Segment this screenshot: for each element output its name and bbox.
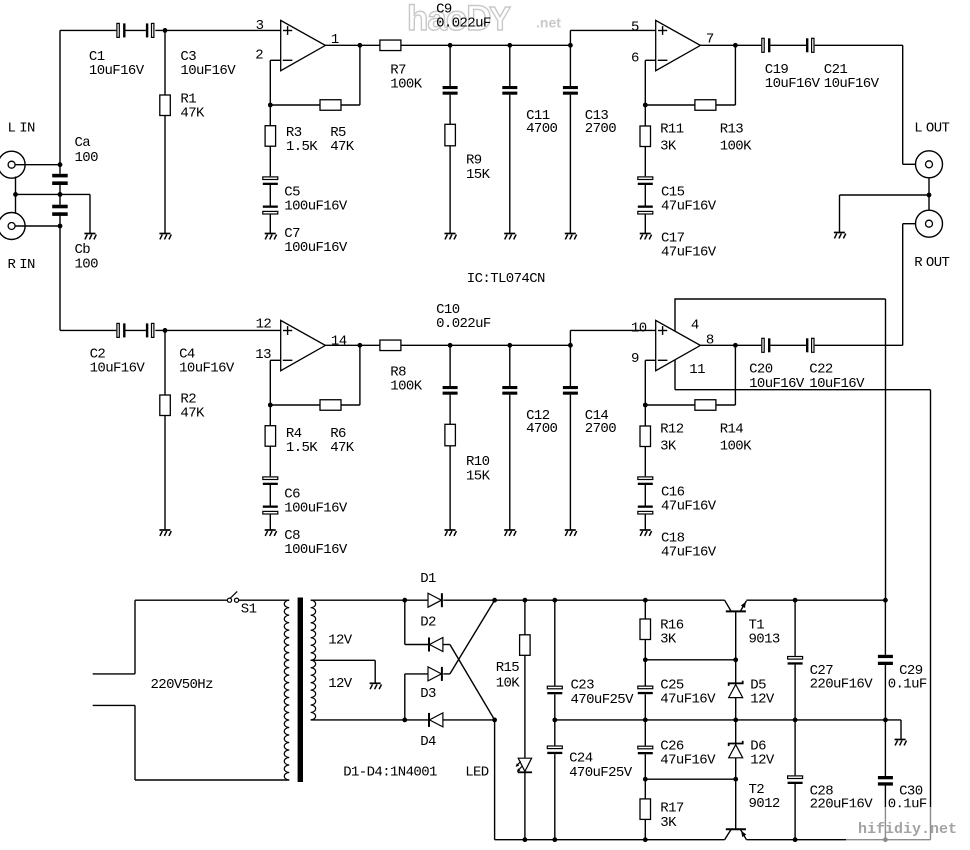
transistor T1 9013 (725, 600, 780, 648)
node feedback B (643, 103, 648, 108)
capacitor C8 100uF16V (263, 506, 348, 559)
capacitor C9 0.022uF (436, 2, 491, 95)
svg-text:15K: 15K (466, 469, 491, 485)
wire (405, 673, 428, 675)
wire (644, 720, 646, 746)
node feedback B (643, 403, 648, 408)
wire (341, 404, 360, 406)
wire (164, 330, 166, 395)
zener diode D5 12V (729, 678, 775, 708)
wire (164, 416, 166, 531)
op-amp U1C TL074 (281, 320, 326, 370)
junction (448, 343, 453, 348)
wire (449, 45, 451, 86)
ground (445, 530, 457, 536)
wire (735, 698, 737, 720)
junction (507, 43, 512, 48)
wire (644, 60, 646, 105)
wire (449, 345, 451, 386)
output jack R OUT (916, 210, 943, 237)
input jack R IN (0, 213, 35, 274)
wire (269, 360, 271, 405)
svg-text:100uF16V: 100uF16V (284, 501, 348, 517)
svg-text:D3: D3 (420, 686, 436, 702)
svg-text:10uF16V: 10uF16V (765, 76, 821, 92)
svg-text:1.5K: 1.5K (286, 440, 318, 456)
junction (883, 837, 888, 842)
junction (448, 43, 453, 48)
diode D4 1N4001 (420, 713, 443, 750)
svg-text:Y: Y (489, 0, 511, 37)
svg-text:L: L (914, 120, 922, 136)
wire (644, 105, 646, 126)
wire (269, 146, 271, 176)
junction (13, 192, 18, 197)
svg-text:100: 100 (75, 257, 99, 273)
wire output (325, 44, 380, 46)
wire (644, 447, 646, 477)
wire (735, 660, 737, 684)
wire (644, 405, 646, 426)
resistor R8 100K (380, 340, 423, 395)
svg-text:.net: .net (536, 15, 561, 31)
wire top rail (495, 599, 725, 601)
junction (568, 343, 573, 348)
wire jack shells (15, 177, 17, 213)
junction (733, 43, 738, 48)
diode D3 1N4001 (420, 667, 442, 702)
wire (269, 446, 271, 476)
ground (504, 234, 516, 240)
wire ground stub (89, 194, 91, 233)
capacitor C24 470uF25V (547, 746, 632, 781)
wire (443, 644, 450, 646)
capacitor C4 10uF16V (146, 323, 235, 376)
wire (900, 720, 902, 740)
svg-text:10uF16V: 10uF16V (809, 376, 865, 392)
ground (895, 740, 907, 746)
resistor R11 3K (640, 122, 684, 155)
svg-text:R14: R14 (720, 422, 744, 438)
wire (524, 655, 526, 758)
wire (449, 146, 451, 234)
wire (645, 778, 735, 780)
wire bottom rail (495, 839, 725, 841)
wire V- rail to supply (930, 390, 932, 840)
svg-text:47uF16V: 47uF16V (661, 499, 717, 515)
svg-text:12V: 12V (750, 753, 775, 769)
capacitor C25 47uF16V (638, 678, 716, 708)
junction (883, 718, 888, 723)
watermark haoDIY.net (407, 0, 561, 38)
ground (445, 234, 457, 240)
capacitor C21 10uF16V (806, 38, 880, 92)
junction (643, 837, 648, 842)
wire (239, 599, 290, 601)
wire (15, 164, 60, 166)
capacitor C26 47uF16V (638, 739, 716, 769)
wire input row (60, 329, 116, 331)
svg-text:47K: 47K (180, 106, 205, 122)
capacitor C17 47uF16V (638, 206, 717, 261)
wire input row (60, 29, 116, 31)
svg-text:6: 6 (631, 51, 639, 67)
svg-text:10uF16V: 10uF16V (89, 63, 145, 79)
resistor R6 47K (320, 400, 355, 456)
ground (640, 530, 652, 536)
capacitor C29 0.1uF (878, 655, 927, 693)
wire (524, 772, 526, 839)
svg-text:12V: 12V (750, 691, 775, 707)
wire (59, 181, 61, 204)
ground (565, 530, 577, 536)
wire (401, 344, 571, 346)
capacitor C5 100uF16V (263, 177, 348, 215)
wire output (700, 44, 761, 46)
wire (126, 29, 146, 31)
wire (644, 360, 646, 405)
resistor R4 1.5K (265, 426, 318, 456)
wire (134, 705, 136, 780)
wire (794, 720, 796, 775)
wire (405, 719, 428, 721)
svg-text:R: R (8, 257, 17, 273)
svg-text:3K: 3K (660, 138, 677, 154)
wire (716, 404, 736, 406)
wire (155, 329, 280, 331)
svg-text:470uF25V: 470uF25V (571, 692, 635, 708)
wire (644, 779, 646, 799)
wire (734, 45, 736, 105)
capacitor C18 47uF16V (638, 506, 717, 561)
wire (126, 329, 146, 331)
wire inverting input (645, 59, 655, 61)
capacitor C10 0.022uF (436, 302, 491, 395)
wire center tap (311, 659, 376, 661)
capacitor C27 220uF16V (788, 657, 874, 693)
capacitor C14 2700 (563, 386, 616, 437)
capacitor C15 47uF16V (638, 177, 717, 215)
svg-text:100K: 100K (390, 379, 422, 395)
diode D1 1N4001 (420, 571, 442, 607)
wire secondary bottom (311, 719, 405, 721)
junction (523, 598, 528, 603)
junction (523, 837, 528, 842)
resistor R17 3K (640, 799, 684, 831)
wire (644, 514, 646, 530)
junction (58, 162, 63, 167)
wire (794, 784, 796, 840)
wire (644, 660, 646, 686)
wire (902, 45, 904, 164)
IC power box pins 4 and 11 (675, 299, 931, 390)
capacitor C11 4700 (502, 86, 557, 137)
svg-text:3K: 3K (660, 815, 677, 831)
LED indicator (465, 758, 532, 780)
ground (504, 530, 516, 536)
wire (509, 45, 511, 86)
wire (269, 214, 271, 234)
svg-text:12V: 12V (328, 632, 353, 648)
wire (840, 194, 930, 196)
svg-text:4: 4 (691, 318, 699, 334)
wire (644, 754, 646, 779)
wire (554, 754, 556, 840)
wire (644, 147, 646, 177)
svg-text:IN: IN (19, 257, 35, 273)
capacitor C12 4700 (502, 386, 557, 437)
wire (884, 600, 886, 655)
wire (449, 446, 451, 530)
wire (554, 600, 556, 685)
switch S1 (227, 591, 256, 617)
svg-text:S1: S1 (241, 602, 257, 618)
svg-text:3: 3 (256, 18, 264, 34)
wire (16, 193, 91, 195)
wire diagonal (450, 645, 495, 720)
svg-text:100K: 100K (720, 438, 752, 454)
wire (270, 104, 320, 106)
svg-text:100K: 100K (720, 138, 752, 154)
svg-text:3K: 3K (660, 438, 677, 454)
transformer core (298, 598, 303, 783)
wire (644, 694, 646, 720)
wire inverting input (270, 59, 280, 61)
wire (644, 600, 646, 619)
wire (401, 44, 571, 46)
wire (644, 185, 646, 206)
svg-text:220V50Hz: 220V50Hz (151, 677, 214, 693)
junction (883, 598, 888, 603)
wire (359, 345, 361, 405)
input jack L IN (0, 120, 35, 178)
svg-text:10uF16V: 10uF16V (824, 76, 880, 92)
wire (524, 600, 526, 635)
wire (269, 485, 271, 506)
svg-text:10uF16V: 10uF16V (90, 361, 146, 377)
node T1 base (733, 657, 738, 662)
wire bottom rail (746, 839, 930, 841)
wire T1 base (735, 611, 737, 659)
wire (404, 600, 406, 644)
wire (644, 485, 646, 506)
wire (134, 600, 136, 674)
wire top rail (746, 599, 885, 601)
wire (404, 674, 406, 720)
wire (269, 514, 271, 530)
wire (405, 644, 428, 646)
op-amp U1A TL074 (281, 20, 326, 70)
svg-text:L: L (8, 120, 16, 136)
junction (643, 777, 648, 782)
wire (405, 599, 428, 601)
svg-text:0.1uF: 0.1uF (888, 676, 927, 692)
wire (794, 665, 796, 720)
svg-text:47uF16V: 47uF16V (661, 245, 717, 261)
junction (643, 657, 648, 662)
svg-text:100uF16V: 100uF16V (284, 240, 348, 256)
transistor T2 9012 (725, 782, 780, 840)
node T2 base (733, 777, 738, 782)
junction (358, 43, 363, 48)
svg-text:12V: 12V (328, 676, 353, 692)
wire (570, 329, 655, 331)
capacitor C16 47uF16V (638, 477, 717, 515)
capacitor C3 10uF16V (146, 23, 236, 79)
junction (163, 328, 168, 333)
capacitor C6 100uF16V (263, 477, 348, 517)
svg-text:IN: IN (19, 120, 35, 136)
svg-text:47K: 47K (330, 139, 355, 155)
wire (716, 104, 736, 106)
svg-text:1.5K: 1.5K (286, 139, 318, 155)
svg-text:100uF16V: 100uF16V (284, 542, 348, 558)
wire (884, 785, 886, 839)
wire (839, 195, 841, 233)
capacitor C30 0.1uF (878, 776, 927, 813)
node feedback A (268, 103, 273, 108)
resistor R16 3K (640, 618, 684, 648)
junction (552, 837, 557, 842)
capacitor C23 470uF25V (547, 678, 634, 709)
svg-text:10uF16V: 10uF16V (180, 63, 236, 79)
wire (509, 395, 511, 530)
svg-text:R13: R13 (720, 122, 744, 138)
resistor R2 47K (160, 392, 205, 422)
wire (509, 345, 511, 386)
capacitor Ca 100 (52, 135, 98, 185)
watermark hifidiy.net (846, 807, 964, 844)
junction (163, 28, 168, 33)
svg-text:OUT: OUT (926, 120, 950, 136)
svg-text:47uF16V: 47uF16V (660, 753, 716, 769)
capacitor C22 10uF16V (806, 338, 865, 392)
wire (569, 330, 571, 345)
wire (269, 105, 271, 126)
op-amp U1D TL074 (656, 320, 701, 370)
wire (359, 45, 361, 105)
svg-text:47uF16V: 47uF16V (660, 691, 716, 707)
wire 0V rail (555, 719, 901, 721)
junction (402, 718, 407, 723)
wire (644, 640, 646, 660)
wire (644, 214, 646, 234)
svg-text:10uF16V: 10uF16V (749, 376, 805, 392)
svg-text:LED: LED (465, 765, 489, 781)
wire (569, 395, 571, 530)
junction (552, 718, 557, 723)
svg-text:15K: 15K (466, 167, 491, 183)
svg-text:11: 11 (689, 362, 705, 378)
wire (374, 660, 376, 683)
resistor R12 3K (640, 422, 684, 455)
capacitor C7 100uF16V (263, 206, 348, 257)
wire inverting input (270, 359, 280, 361)
ground (370, 683, 382, 689)
wire mains stub (93, 673, 135, 675)
wire (645, 659, 735, 661)
resistor R1 47K (160, 92, 205, 122)
wire (164, 116, 166, 234)
junction (793, 837, 798, 842)
svg-text:Ca: Ca (75, 135, 91, 151)
resistor R10 15K (445, 424, 491, 484)
wire (903, 223, 916, 225)
svg-text:0.022uF: 0.022uF (436, 16, 491, 32)
svg-text:9013: 9013 (749, 632, 780, 648)
capacitor C28 220uF16V (788, 776, 874, 813)
resistor R5 47K (320, 100, 355, 155)
junction (402, 598, 407, 603)
wire (135, 599, 228, 601)
svg-text:47K: 47K (330, 440, 355, 456)
svg-text:0.022uF: 0.022uF (436, 316, 491, 332)
wire (770, 344, 806, 346)
wire (884, 720, 886, 776)
junction (927, 193, 932, 198)
ground (265, 530, 277, 536)
wire (269, 405, 271, 426)
junction (793, 718, 798, 723)
wire (884, 665, 886, 720)
node V+ raw (492, 598, 497, 603)
capacitor C20 10uF16V (749, 338, 805, 392)
wire (815, 344, 903, 346)
wire (270, 404, 320, 406)
svg-text:R12: R12 (660, 422, 684, 438)
svg-text:47uF16V: 47uF16V (661, 545, 717, 561)
wire (644, 819, 646, 839)
junction (643, 718, 648, 723)
svg-text:R11: R11 (660, 122, 684, 138)
svg-text:D1: D1 (420, 571, 436, 587)
svg-text:IC:TL074CN: IC:TL074CN (467, 271, 545, 287)
wire (794, 600, 796, 656)
wire T2 base (735, 779, 737, 829)
wire output (700, 344, 761, 346)
wire diagonal (450, 600, 495, 674)
transformer primary winding (284, 600, 289, 780)
zener diode D6 12V (729, 739, 775, 769)
capacitor C13 2700 (563, 86, 616, 137)
wire (570, 29, 655, 31)
wire (59, 212, 61, 226)
wire (569, 345, 571, 386)
svg-text:OUT: OUT (926, 255, 950, 271)
wire (443, 719, 495, 721)
svg-text:5: 5 (631, 20, 639, 36)
wire (569, 45, 571, 86)
resistor R14 100K (695, 400, 752, 455)
wire (341, 104, 360, 106)
svg-text:R10: R10 (466, 454, 490, 470)
svg-text:9: 9 (631, 351, 639, 367)
resistor R9 15K (445, 124, 491, 183)
svg-text:10: 10 (631, 321, 647, 337)
wire (443, 599, 494, 601)
ground (265, 234, 277, 240)
wire secondary top (311, 599, 405, 601)
wire (735, 720, 737, 744)
wire (903, 163, 916, 165)
svg-text:100uF16V: 100uF16V (284, 199, 348, 215)
wire (269, 60, 271, 105)
wire (770, 44, 806, 46)
capacitor Cb 100 (52, 205, 98, 273)
resistor R15 10K (496, 635, 530, 692)
svg-text:100K: 100K (390, 77, 422, 93)
svg-text:470uF25V: 470uF25V (569, 765, 633, 781)
